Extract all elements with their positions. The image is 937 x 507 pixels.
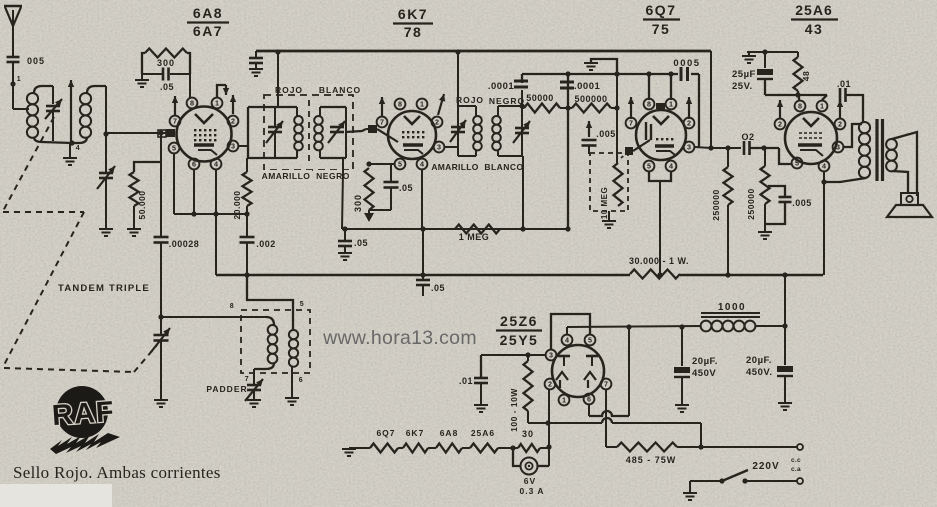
svg-text:5: 5: [398, 160, 402, 169]
wire speaker top: [892, 132, 917, 196]
RAF logo: [56, 386, 108, 438]
wire pin1 stub: [217, 85, 226, 97]
wire .01 to OT: [846, 95, 863, 123]
svg-text:ROJO: ROJO: [456, 95, 484, 105]
svg-text:1: 1: [562, 396, 566, 405]
wire pin5 cathode: [173, 154, 175, 214]
svg-text:8: 8: [798, 102, 802, 111]
svg-text:.05: .05: [354, 238, 368, 248]
svg-text:220V: 220V: [752, 461, 779, 472]
wire pin5 to cathode net: [369, 163, 394, 165]
pilot lamp 6V 0.3A: [513, 448, 521, 466]
resistor 100-10W: [524, 361, 533, 411]
svg-text:450V.: 450V.: [746, 367, 772, 378]
resistor 50000: [522, 107, 524, 109]
svg-text:1: 1: [215, 99, 219, 108]
arrow pin2 6Q7: [688, 97, 690, 119]
wire 300 frame: [142, 53, 145, 74]
svg-text:2: 2: [778, 120, 782, 129]
pin 4 25Z6: [562, 335, 573, 346]
grid pad 6A8: [166, 129, 175, 137]
svg-text:TANDEM TRIPLE: TANDEM TRIPLE: [58, 283, 150, 294]
wire cathode feed y327: [566, 327, 568, 334]
dashed gang link A: [3, 117, 54, 211]
ground osc coil: [285, 398, 299, 405]
svg-text:.005: .005: [596, 129, 616, 139]
wire det drop x617: [616, 59, 618, 163]
svg-text:7: 7: [380, 118, 384, 127]
svg-text:5: 5: [588, 336, 592, 345]
wire plate 6A8 to IF1: [239, 145, 248, 147]
ground heater chain: [342, 449, 356, 456]
pin 1 25Z6: [559, 395, 570, 406]
ground diode line: [584, 63, 598, 70]
resistor 300 cathode 6K7: [365, 168, 374, 210]
resistor heater string: [349, 447, 370, 449]
pin 7 6K7: [377, 117, 388, 128]
svg-text:25Z6: 25Z6: [500, 313, 538, 329]
svg-text:c.a: c.a: [791, 466, 801, 473]
svg-text:5: 5: [647, 162, 651, 171]
svg-text:43: 43: [805, 21, 824, 37]
svg-text:30: 30: [522, 429, 534, 439]
svg-text:ROJO: ROJO: [275, 85, 303, 95]
wire OT primary bottom: [824, 178, 866, 182]
inductor osc coil secondary: [289, 330, 298, 339]
svg-text:4: 4: [420, 160, 424, 169]
pin 5 6K7: [395, 159, 406, 170]
ground 300: [141, 74, 143, 79]
svg-text:25µF: 25µF: [732, 69, 756, 80]
resistor 30: [518, 444, 540, 452]
svg-text:4: 4: [565, 336, 569, 345]
svg-text:20µF.: 20µF.: [746, 355, 772, 366]
ground padder: [247, 400, 261, 407]
pin 4 6A8: [211, 159, 222, 170]
svg-text:0.3 A: 0.3 A: [519, 486, 544, 496]
wire pin4 6K7 down: [421, 170, 423, 229]
svg-text:3: 3: [836, 143, 840, 152]
inductor IF1 primary coil: [294, 116, 303, 125]
svg-text:250000: 250000: [746, 188, 756, 219]
svg-text:4: 4: [214, 160, 218, 169]
output transformer core: [875, 119, 878, 181]
svg-text:6K7: 6K7: [406, 428, 425, 438]
svg-text:30.000 - 1 W.: 30.000 - 1 W.: [629, 256, 689, 266]
capacitor .0001 det: [560, 81, 574, 84]
wire osc feed: [247, 275, 293, 330]
label AMARILLO: [260, 170, 312, 181]
terminal 220V bottom: [797, 478, 803, 484]
svg-text:6A8: 6A8: [440, 428, 459, 438]
inductor L2 RF coil: [80, 93, 91, 104]
ground .05 AVC: [338, 253, 352, 260]
node 1: [10, 81, 15, 86]
IF2 secondary frame: [497, 106, 499, 116]
pin 2 25A6 left: [775, 119, 786, 130]
capacitor .01 line filter: [480, 355, 482, 377]
capacitor bus bypass: [255, 51, 257, 57]
choke core: [701, 312, 760, 314]
svg-text:.05: .05: [160, 82, 174, 92]
svg-text:www.hora13.com: www.hora13.com: [322, 327, 477, 349]
svg-text:7: 7: [245, 376, 249, 383]
wire AVC bus y229: [342, 228, 568, 230]
dashed gang link E: [134, 345, 157, 372]
resistor 50.000: [130, 172, 139, 206]
svg-text:.0001: .0001: [574, 81, 600, 92]
svg-text:5: 5: [172, 144, 176, 153]
svg-text:.05: .05: [399, 183, 413, 193]
wire B+ drop IF2: [457, 52, 459, 106]
wire pin2 down: [548, 390, 550, 466]
pin 2 25Z6: [545, 379, 556, 390]
wire grid line 25A6: [750, 147, 779, 149]
variable capacitor tuning gang 2: [99, 172, 113, 175]
pin 3 25A6: [833, 142, 844, 153]
dashed gang link B: [3, 211, 84, 213]
wire pin8 up: [798, 95, 800, 100]
svg-text:300: 300: [157, 58, 175, 68]
resistor 300 (6A8 grid2): [145, 49, 187, 58]
grid pad 6Q7: [625, 147, 633, 155]
wire y416 link: [589, 411, 629, 416]
wire speaker bottom: [892, 171, 908, 194]
svg-text:4: 4: [822, 162, 826, 171]
ground 250000: [758, 232, 772, 239]
svg-text:25Y5: 25Y5: [500, 332, 539, 348]
wire IF1 to 6K7 grid: [346, 129, 366, 132]
wire cathode line y214: [174, 213, 247, 215]
svg-text:2: 2: [838, 120, 842, 129]
resistor 485-75W: [606, 446, 617, 448]
wire top bus: [256, 50, 711, 53]
resistor 250000 plate load: [724, 167, 733, 205]
wire plate frame 25Z6: [551, 314, 590, 349]
svg-text:300: 300: [353, 194, 363, 212]
svg-text:1: 1: [17, 76, 21, 83]
svg-text:O2: O2: [741, 132, 754, 142]
arrow pin7 6K7: [381, 97, 383, 116]
pin 2 25A6 right: [835, 119, 846, 130]
wire grid line 6A8: [106, 132, 168, 134]
pin 8 6A8: [187, 98, 198, 109]
svg-text:25A6: 25A6: [795, 2, 832, 18]
svg-text:.0001: .0001: [488, 81, 514, 92]
tube 25A6: [785, 112, 837, 164]
wire choke out up: [784, 275, 786, 326]
dashed gang link D: [4, 368, 134, 372]
ground bus bypass: [249, 69, 263, 76]
wire screen feed x824: [823, 172, 825, 275]
pin 8 25A6: [795, 101, 806, 112]
grid pad 6K7: [368, 125, 377, 133]
svg-text:1: 1: [420, 100, 424, 109]
svg-text:48: 48: [801, 71, 811, 81]
svg-text:3: 3: [549, 351, 553, 360]
capacitor 25uF electrolytic: [764, 52, 766, 68]
svg-text:Sello Rojo. Ambas corrientes: Sello Rojo. Ambas corrientes: [13, 463, 221, 482]
svg-text:3: 3: [687, 143, 691, 152]
svg-text:PADDER: PADDER: [206, 384, 247, 394]
pin 4 6K7: [417, 159, 428, 170]
pin 3 6Q7: [684, 142, 695, 153]
wire to diode line: [521, 74, 523, 83]
wire 6Q7 cathode: [649, 172, 671, 181]
svg-text:c.c: c.c: [791, 457, 801, 464]
resistor 10 MEG: [614, 163, 623, 206]
capacitor 20uF first: [681, 327, 683, 366]
wire antenna lead: [12, 26, 14, 57]
svg-text:7: 7: [173, 117, 177, 126]
ground 10MEG: [608, 211, 610, 220]
wire L2 bottom: [72, 137, 87, 143]
pin 1 6K7: [417, 99, 428, 110]
IF1 primary frame: [247, 107, 249, 158]
svg-text:BLANCO: BLANCO: [484, 162, 523, 172]
dashed wiper: [621, 151, 629, 158]
ground 20uF second: [778, 403, 792, 410]
volume control dashed box: [590, 153, 628, 211]
svg-text:1: 1: [669, 100, 673, 109]
wire to mains terminal: [701, 446, 797, 448]
svg-text:25V.: 25V.: [732, 81, 753, 92]
svg-text:3: 3: [231, 142, 235, 151]
svg-text:2: 2: [548, 380, 552, 389]
IF1 dashed box: [264, 95, 353, 170]
svg-text:4: 4: [669, 162, 673, 171]
wire stub with arrow: [70, 80, 72, 141]
svg-text:005: 005: [27, 56, 45, 66]
ground 50000: [127, 229, 141, 236]
svg-text:.01: .01: [837, 79, 851, 89]
pin 8 6K7: [395, 99, 406, 110]
svg-text:78: 78: [404, 24, 423, 40]
svg-text:8: 8: [190, 99, 194, 108]
svg-text:485 - 75W: 485 - 75W: [626, 455, 677, 465]
svg-text:NEGRO: NEGRO: [316, 171, 350, 181]
wire to pin8: [189, 74, 191, 98]
ground oscillator: [154, 400, 168, 407]
oscillator dashed box: [241, 310, 310, 373]
capacitor .002: [240, 236, 255, 239]
pin 2 6A8: [228, 116, 239, 127]
IF2 primary frame: [457, 106, 459, 156]
wire AVC long vertical: [567, 74, 569, 229]
tube 25Z6: [552, 345, 604, 397]
pin 7 6Q7: [626, 118, 637, 129]
wire pin8 6Q7 up: [648, 74, 650, 100]
wire pin6 down: [588, 405, 590, 416]
trimmer capacitor IF2 primary: [451, 126, 465, 129]
arrow pin2 6K7: [438, 94, 444, 115]
wire IF1 secondary return: [342, 158, 344, 172]
dashed gang link C: [4, 212, 84, 365]
svg-text:20µF.: 20µF.: [692, 356, 718, 367]
wire x629 down: [628, 327, 630, 416]
svg-text:5: 5: [795, 159, 799, 168]
trimmer capacitor IF2 secondary: [515, 127, 529, 130]
resistor 30.000-1W: [630, 270, 680, 279]
wire pin7 down: [605, 390, 607, 447]
pin 1 25A6: [817, 101, 828, 112]
svg-text:2: 2: [435, 118, 439, 127]
wire osc vertical: [160, 243, 162, 335]
variable capacitor oscillator gang 3: [154, 334, 169, 337]
svg-text:8: 8: [647, 100, 651, 109]
capacitor .05 AVC: [342, 226, 347, 231]
svg-text:6: 6: [299, 377, 303, 384]
capacitor O2: [743, 141, 746, 155]
svg-text:0005: 0005: [673, 58, 700, 69]
svg-text:6A7: 6A7: [193, 23, 223, 39]
pin 5 6A8: [169, 143, 180, 154]
arrow pin2R 25A6: [839, 100, 841, 118]
svg-text:100 - 10W: 100 - 10W: [509, 388, 519, 432]
antenna: [4, 5, 22, 7]
wire AVC vertical: [160, 133, 162, 236]
arrow pin7 6A8: [174, 96, 176, 115]
pin 1 6A8: [212, 98, 223, 109]
tube 6K7: [388, 111, 436, 159]
wire tuning drop: [105, 134, 107, 172]
wire B- bus y275: [216, 274, 630, 277]
RAF lightning marks: [50, 433, 120, 454]
svg-text:6A8: 6A8: [193, 5, 223, 21]
output transformer primary: [859, 122, 870, 133]
wire antenna to coil: [12, 62, 14, 109]
arrow pin7 6Q7: [630, 97, 632, 119]
svg-text:6: 6: [587, 395, 591, 404]
wire switch to ground: [690, 480, 722, 482]
wire cathode top rail: [747, 51, 798, 53]
trimmer capacitor C-ant: [46, 105, 60, 108]
wire IF2 secondary top: [521, 90, 523, 106]
svg-text:1 MEG: 1 MEG: [459, 232, 490, 242]
label BLANCO: [317, 84, 361, 94]
output transformer secondary: [886, 139, 897, 150]
inductor osc coil primary: [266, 317, 274, 325]
svg-text:AMARILLO: AMARILLO: [431, 162, 478, 172]
ground 20uF first: [675, 405, 689, 412]
wire coil1 bottom: [34, 137, 72, 143]
svg-text:2: 2: [231, 117, 235, 126]
inductor IF1 secondary coil: [314, 116, 323, 125]
wire bracket to 50000: [134, 162, 161, 172]
svg-text:.002: .002: [256, 239, 276, 249]
svg-text:.00028: .00028: [169, 239, 200, 249]
wire IF2 secondary bottom: [522, 156, 524, 229]
wire plate 6K7 to IF2: [445, 146, 458, 148]
resistor 48 cathode: [797, 52, 799, 57]
ground .01 filter: [474, 405, 488, 412]
wire 485 right vertical: [700, 423, 702, 447]
svg-text:6Q7: 6Q7: [646, 2, 677, 18]
svg-text:4: 4: [76, 145, 80, 152]
pin 4 25A6: [819, 161, 830, 172]
svg-text:AMARILLO: AMARILLO: [262, 171, 311, 181]
wire pin1 6Q7 up: [670, 74, 672, 100]
svg-text:2: 2: [687, 119, 691, 128]
svg-text:.005: .005: [792, 198, 812, 208]
pin 6 25Z6: [584, 394, 595, 405]
tube 6Q7: [636, 110, 686, 160]
wire bus drop x711: [710, 51, 712, 148]
wire cathode y93: [765, 94, 827, 96]
padder trimmer capacitor: [247, 384, 261, 387]
wire osc cap to ground: [160, 341, 162, 399]
svg-text:5: 5: [300, 301, 304, 308]
arrow pin2L 25A6: [779, 100, 781, 118]
switch mains: [745, 480, 797, 482]
ground antenna coil: [69, 143, 71, 157]
svg-text:6K7: 6K7: [398, 6, 428, 22]
capacitor 20uF second: [784, 326, 786, 365]
wire plate 25A6 to OT: [844, 124, 862, 147]
wire x423 link: [422, 229, 424, 275]
capacitor .005 det: [588, 121, 590, 137]
capacitor .005 tone: [768, 186, 785, 196]
capacitor .05 bias: [422, 275, 424, 279]
pin 3 25Z6: [546, 350, 557, 361]
wire 6Q7 plate: [695, 147, 711, 148]
svg-text:50.000: 50.000: [137, 191, 147, 220]
svg-text:50000: 50000: [526, 93, 554, 103]
pin 4 6Q7 top: [666, 99, 677, 110]
node 4: [69, 140, 74, 145]
trimmer capacitor IF1 secondary: [330, 126, 344, 129]
capacitor .01 output: [839, 88, 842, 102]
resistor 1 MEG: [455, 225, 500, 234]
pin 5 25A6: [792, 158, 803, 169]
pin 4 6Q7 bottom: [666, 161, 677, 172]
pin 3 6A8: [228, 141, 239, 152]
wire 50000 bottom: [133, 206, 135, 228]
pin 7 6A8: [170, 116, 181, 127]
svg-text:6V: 6V: [524, 476, 536, 486]
label NEGRO: [315, 170, 351, 181]
wire pin1 up: [822, 95, 827, 100]
svg-text:8: 8: [398, 100, 402, 109]
inductor IF2 secondary coil: [492, 116, 501, 125]
wire diode line: [522, 73, 678, 75]
wire plate line: [711, 147, 741, 149]
svg-text:10 MEG: 10 MEG: [600, 187, 609, 219]
wire pin6 down: [193, 170, 195, 214]
node grid junction: [103, 131, 108, 136]
svg-text:RAF: RAF: [51, 396, 116, 432]
capacitor .005 antenna: [7, 56, 20, 59]
svg-text:75: 75: [652, 21, 671, 37]
svg-text:8: 8: [230, 303, 234, 310]
pin 5 6Q7: [644, 161, 655, 172]
svg-text:1000: 1000: [718, 302, 746, 313]
pin 8 6Q7: [644, 99, 655, 110]
resistor 250000 grid: [761, 166, 770, 204]
svg-text:6: 6: [192, 160, 196, 169]
svg-text:3: 3: [437, 143, 441, 152]
arrow pin2 6A8: [232, 95, 234, 114]
svg-text:450V: 450V: [692, 368, 716, 379]
svg-text:7: 7: [629, 119, 633, 128]
pin 3 6K7: [434, 142, 445, 153]
pin 2 6Q7: [684, 118, 695, 129]
resistor 20.000: [243, 172, 252, 206]
wire ground bracket: [591, 59, 617, 74]
capacitor .05 (6A8): [162, 68, 165, 81]
wire osc grid line: [161, 316, 266, 318]
wire heater tap y423: [528, 422, 602, 424]
